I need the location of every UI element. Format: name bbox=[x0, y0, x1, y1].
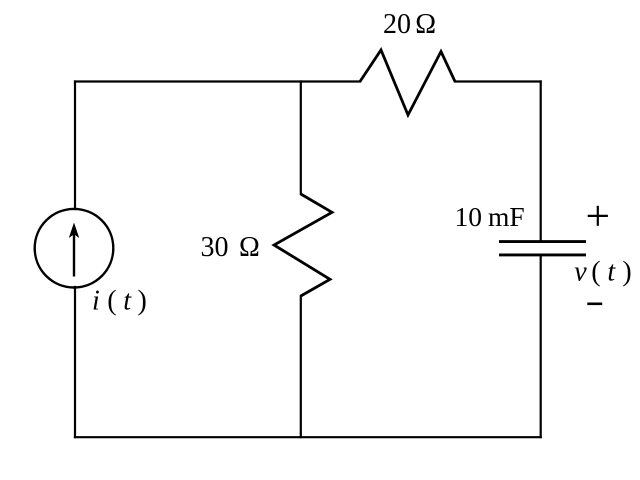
svg-text:): ) bbox=[622, 257, 631, 288]
resistor 30 ohm zigzag bbox=[274, 194, 332, 296]
svg-text:10: 10 bbox=[455, 201, 483, 232]
wire middle vertical lower segment bbox=[300, 296, 302, 437]
current source circle bbox=[35, 209, 114, 288]
svg-text:(: ( bbox=[591, 257, 600, 288]
wire left vertical upper segment bbox=[74, 82, 76, 210]
wire left vertical lower segment bbox=[74, 287, 76, 437]
wire right vertical lower segment bbox=[540, 256, 542, 437]
capacitor voltage label v(t) bbox=[574, 257, 632, 288]
wire top horizontal left segment bbox=[75, 80, 360, 82]
svg-text:Ω: Ω bbox=[415, 9, 436, 40]
plus sign polarity mark bbox=[588, 206, 608, 226]
svg-text:i: i bbox=[92, 286, 100, 317]
wire right vertical upper segment bbox=[540, 82, 542, 241]
minus sign polarity mark bbox=[587, 302, 602, 305]
svg-text:30: 30 bbox=[201, 232, 229, 263]
resistor 20 ohm zigzag bbox=[360, 50, 455, 115]
current source arrowhead bbox=[69, 223, 79, 239]
capacitor bottom plate bbox=[499, 253, 586, 256]
svg-text:mF: mF bbox=[488, 201, 525, 232]
capacitor top plate bbox=[499, 240, 586, 243]
svg-text:Ω: Ω bbox=[239, 232, 260, 263]
svg-text:t: t bbox=[123, 286, 132, 317]
svg-text:(: ( bbox=[107, 286, 116, 317]
wire top horizontal right segment bbox=[455, 80, 541, 82]
current source arrow shaft bbox=[73, 233, 75, 277]
svg-text:v: v bbox=[574, 257, 587, 288]
wire bottom horizontal bbox=[75, 436, 541, 438]
wire middle vertical upper segment bbox=[300, 82, 302, 195]
current source label i(t) bbox=[92, 286, 147, 317]
svg-text:): ) bbox=[138, 286, 147, 317]
svg-text:20: 20 bbox=[383, 9, 411, 40]
svg-text:t: t bbox=[607, 257, 616, 288]
